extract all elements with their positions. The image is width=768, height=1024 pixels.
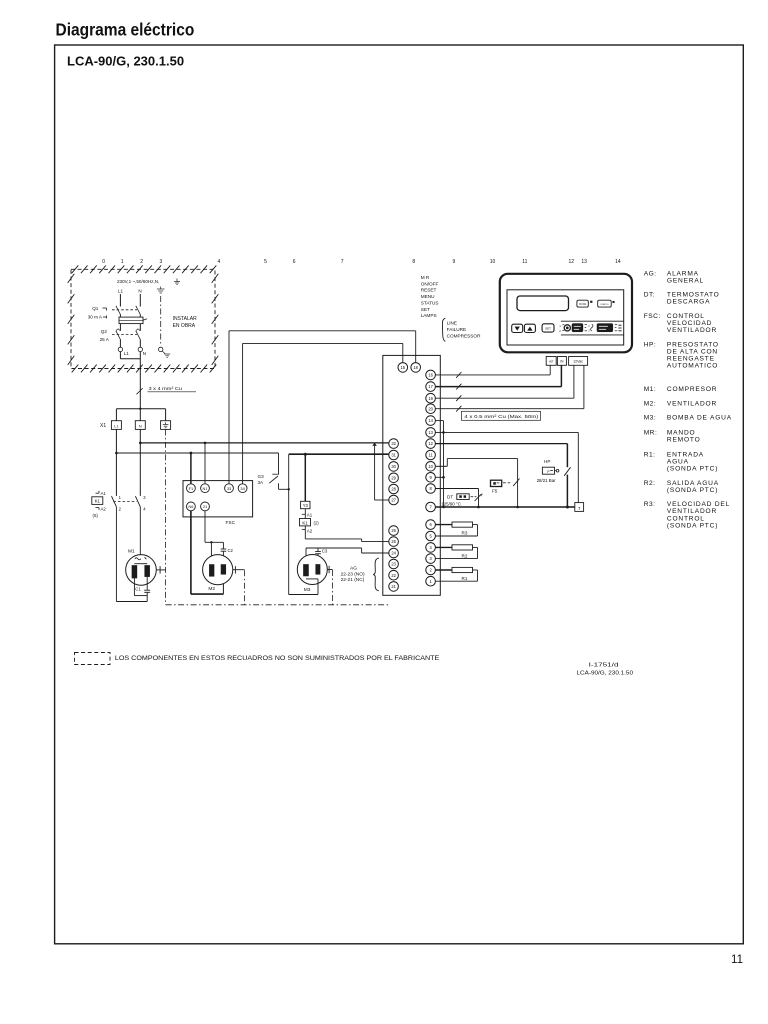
svg-text:R2:: R2:	[644, 480, 656, 487]
svg-text:COMPRESOR: COMPRESOR	[667, 386, 717, 393]
svg-text:1: 1	[121, 259, 124, 265]
svg-text:13: 13	[581, 259, 587, 265]
svg-text:N6: N6	[188, 504, 193, 509]
svg-text:SET: SET	[421, 307, 430, 312]
svg-text:LCA-90/G, 230.1.50: LCA-90/G, 230.1.50	[67, 54, 184, 69]
svg-text:230V,1 ~,50/60Hz,N,: 230V,1 ~,50/60Hz,N,	[117, 279, 159, 284]
svg-text:30: 30	[391, 464, 396, 469]
svg-text:R3:: R3:	[644, 501, 656, 508]
svg-text:HP: HP	[544, 459, 550, 464]
svg-text:N: N	[139, 424, 142, 428]
svg-text:22-23 (NO): 22-23 (NO)	[341, 571, 365, 577]
svg-text:VENTILADOR: VENTILADOR	[667, 327, 717, 334]
svg-text:(SONDA PTC): (SONDA PTC)	[667, 487, 718, 494]
svg-text:TERMOSTATO: TERMOSTATO	[667, 292, 720, 299]
svg-text:MANDO: MANDO	[667, 430, 696, 437]
svg-text:R2: R2	[462, 553, 468, 558]
svg-text:30 m A: 30 m A	[88, 314, 103, 319]
svg-text:SALIDA AGUA: SALIDA AGUA	[667, 480, 719, 487]
svg-text:26: 26	[391, 528, 396, 533]
svg-text:A2: A2	[101, 507, 107, 512]
svg-text:R1:: R1:	[644, 451, 656, 458]
svg-text:REMOTO: REMOTO	[667, 437, 701, 444]
svg-text:22: 22	[391, 573, 396, 578]
svg-text:0: 0	[102, 259, 105, 265]
svg-text:(2): (2)	[314, 521, 320, 526]
svg-text:K1: K1	[95, 499, 101, 504]
svg-text:5: 5	[264, 259, 267, 265]
svg-text:F5: F5	[492, 488, 498, 493]
svg-text:L1: L1	[114, 424, 118, 428]
svg-text:LAMPS: LAMPS	[421, 313, 437, 318]
svg-text:L1: L1	[118, 289, 124, 294]
svg-text:9: 9	[453, 259, 456, 265]
svg-text:M3:: M3:	[644, 415, 657, 422]
svg-text:(SONDA PTC): (SONDA PTC)	[667, 522, 718, 529]
svg-text:6: 6	[293, 259, 296, 265]
svg-text:STATUS: STATUS	[421, 301, 439, 306]
svg-text:4: 4	[218, 259, 221, 265]
svg-text:BOMBA DE AGUA: BOMBA DE AGUA	[667, 415, 732, 422]
svg-text:17: 17	[428, 384, 433, 389]
svg-text:27: 27	[391, 498, 396, 503]
svg-text:LCA-90/G, 230.1.50: LCA-90/G, 230.1.50	[577, 670, 634, 676]
svg-text:M2: M2	[208, 586, 215, 592]
svg-text:11: 11	[731, 954, 743, 966]
svg-text:AGUA: AGUA	[667, 458, 689, 465]
svg-text:VELOCIDAD DEL: VELOCIDAD DEL	[667, 501, 730, 508]
svg-text:3A: 3A	[258, 480, 265, 485]
svg-text:ENTRADA: ENTRADA	[667, 451, 704, 458]
svg-text:15: 15	[401, 365, 406, 370]
svg-text:Q2: Q2	[101, 329, 108, 334]
svg-text:31: 31	[391, 453, 396, 458]
svg-text:28/21 Bar: 28/21 Bar	[537, 478, 557, 483]
svg-text:DT:: DT:	[644, 292, 655, 299]
svg-text:DE ALTA CON: DE ALTA CON	[667, 349, 718, 356]
svg-text:18: 18	[413, 365, 418, 370]
svg-text:AG: AG	[350, 566, 357, 572]
svg-text:N: N	[138, 289, 141, 294]
svg-text:FAILURE: FAILURE	[447, 327, 467, 332]
svg-text:FSC: FSC	[226, 520, 236, 526]
svg-text:14: 14	[428, 418, 433, 423]
svg-text:GENERAL: GENERAL	[667, 278, 704, 285]
svg-text:N: N	[143, 351, 146, 356]
svg-text:M2:: M2:	[644, 401, 657, 408]
svg-text:DESCARGA: DESCARGA	[667, 299, 710, 306]
svg-text:12: 12	[569, 259, 575, 265]
svg-text:4 x 0.5 mm² Cu (Max. 50m): 4 x 0.5 mm² Cu (Max. 50m)	[464, 414, 539, 420]
svg-text:VENTILADOR: VENTILADOR	[667, 508, 717, 515]
svg-text:M3: M3	[304, 587, 311, 593]
svg-text:19: 19	[428, 396, 433, 401]
svg-text:3: 3	[160, 259, 163, 265]
svg-text:R3: R3	[462, 531, 468, 536]
svg-text:10: 10	[428, 464, 433, 469]
svg-text:A1: A1	[307, 513, 313, 518]
svg-text:CONTROL: CONTROL	[667, 313, 705, 320]
svg-text:21: 21	[203, 504, 207, 509]
svg-text:X1: X1	[100, 423, 106, 429]
svg-text:C3: C3	[322, 548, 328, 553]
svg-text:2: 2	[140, 259, 143, 265]
svg-text:FSC:: FSC:	[644, 313, 661, 320]
svg-text:12Vac: 12Vac	[573, 360, 583, 364]
svg-text:8: 8	[412, 259, 415, 265]
svg-text:HP:: HP:	[644, 342, 657, 349]
svg-text:EN OBRA: EN OBRA	[173, 323, 196, 329]
svg-text:MENU: MENU	[421, 294, 435, 299]
svg-text:C1: C1	[135, 587, 141, 592]
svg-text:25 A: 25 A	[100, 337, 110, 342]
svg-text:14: 14	[615, 259, 621, 265]
svg-text:L1: L1	[124, 351, 130, 356]
svg-text:R1: R1	[462, 576, 468, 581]
svg-text:MR:: MR:	[644, 430, 658, 437]
svg-text:21: 21	[391, 584, 396, 589]
svg-text:STATUS: STATUS	[600, 303, 609, 306]
svg-text:SET: SET	[545, 327, 551, 331]
svg-text:N1: N1	[203, 486, 208, 491]
svg-text:ON/OFF: ON/OFF	[421, 281, 439, 286]
svg-text:16: 16	[428, 373, 433, 378]
svg-text:INT: INT	[549, 360, 554, 364]
svg-text:29: 29	[391, 475, 396, 480]
svg-text:LOS COMPONENTES EN ESTOS RECUA: LOS COMPONENTES EN ESTOS RECUADROS NO SO…	[115, 655, 439, 662]
svg-text:PRESOSTATO: PRESOSTATO	[667, 342, 719, 349]
svg-text:3 x 4 mm² Cu: 3 x 4 mm² Cu	[149, 386, 183, 392]
svg-text:COMPRESSOR: COMPRESSOR	[447, 334, 481, 339]
svg-text:DT: DT	[447, 494, 453, 499]
svg-text:A2: A2	[307, 529, 313, 534]
svg-text:13: 13	[428, 430, 433, 435]
svg-text:10: 10	[490, 259, 496, 265]
svg-text:C2: C2	[228, 548, 234, 553]
svg-text:125/90 °C: 125/90 °C	[441, 501, 461, 506]
svg-text:K1: K1	[302, 520, 308, 525]
svg-text:22-21 (NC): 22-21 (NC)	[341, 577, 365, 583]
svg-text:AUTOMATICO: AUTOMATICO	[667, 363, 718, 370]
svg-text:RESET: RESET	[421, 288, 437, 293]
svg-text:A1: A1	[101, 491, 107, 496]
svg-text:11: 11	[522, 259, 527, 265]
svg-text:M R: M R	[421, 275, 430, 280]
svg-text:11: 11	[428, 453, 433, 458]
svg-text:VENTILADOR: VENTILADOR	[667, 401, 717, 408]
svg-text:Q1: Q1	[92, 306, 99, 311]
svg-text:VELOCIDAD: VELOCIDAD	[667, 320, 712, 327]
svg-text:ALARMA: ALARMA	[667, 271, 699, 278]
svg-text:32: 32	[391, 441, 396, 446]
svg-text:28: 28	[391, 487, 396, 492]
svg-text:AG:: AG:	[644, 271, 657, 278]
svg-text:M1: M1	[128, 548, 135, 554]
svg-text:MODE: MODE	[579, 303, 587, 306]
svg-text:23: 23	[391, 562, 396, 567]
svg-text:M1:: M1:	[644, 386, 657, 393]
svg-text:7: 7	[341, 259, 344, 265]
svg-text:24: 24	[391, 551, 396, 556]
svg-text:(5): (5)	[93, 513, 99, 518]
svg-text:G3: G3	[258, 474, 265, 479]
svg-text:F1: F1	[189, 486, 194, 491]
svg-text:Diagrama eléctrico: Diagrama eléctrico	[56, 20, 195, 40]
svg-text:25: 25	[391, 539, 396, 544]
svg-text:CONTROL: CONTROL	[667, 515, 705, 522]
svg-text:12: 12	[428, 441, 433, 446]
svg-text:Y3: Y3	[303, 503, 309, 508]
svg-text:20: 20	[428, 406, 433, 411]
svg-text:(SONDA PTC): (SONDA PTC)	[667, 465, 718, 472]
svg-text:LINE: LINE	[447, 321, 457, 326]
svg-text:INSTALAR: INSTALAR	[173, 316, 197, 322]
svg-text:33: 33	[227, 486, 231, 491]
svg-text:REENGASTE: REENGASTE	[667, 356, 715, 363]
svg-text:I-1751/d: I-1751/d	[589, 662, 619, 668]
